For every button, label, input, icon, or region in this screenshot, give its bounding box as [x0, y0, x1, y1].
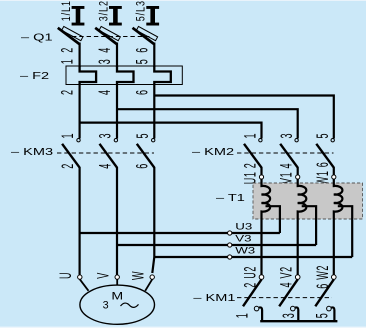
svg-text:6: 6 — [132, 90, 151, 95]
svg-text:3 4: 3 4 — [95, 46, 114, 65]
svg-text:V3: V3 — [235, 235, 251, 244]
svg-text:V: V — [94, 273, 113, 279]
svg-text:– F2: – F2 — [20, 70, 49, 82]
svg-text:– Q1: – Q1 — [21, 31, 53, 43]
svg-text:5: 5 — [313, 133, 332, 138]
svg-text:3: 3 — [277, 133, 296, 138]
svg-text:3: 3 — [279, 313, 298, 318]
svg-text:2 U2: 2 U2 — [241, 266, 260, 288]
svg-text:– KM2: – KM2 — [192, 146, 234, 158]
svg-text:4: 4 — [95, 164, 114, 169]
svg-text:V1 4: V1 4 — [277, 163, 296, 184]
svg-text:M: M — [111, 289, 123, 302]
svg-text:U3: U3 — [235, 223, 252, 232]
svg-text:6: 6 — [133, 164, 152, 169]
svg-text:W: W — [129, 271, 148, 280]
svg-text:W1 6: W1 6 — [313, 162, 332, 186]
svg-text:W3: W3 — [235, 247, 255, 256]
svg-text:3: 3 — [103, 299, 109, 311]
svg-text:5 6: 5 6 — [132, 46, 151, 65]
svg-text:5/L3: 5/L3 — [136, 0, 148, 21]
svg-text:2: 2 — [58, 164, 77, 169]
svg-text:4: 4 — [95, 90, 114, 95]
svg-text:2: 2 — [58, 90, 77, 95]
svg-text:– KM1: – KM1 — [193, 292, 235, 304]
svg-text:1: 1 — [58, 133, 77, 138]
svg-text:3/L2: 3/L2 — [98, 0, 110, 21]
svg-text:3: 3 — [96, 133, 115, 138]
svg-text:1: 1 — [233, 313, 252, 318]
svg-text:– T1: – T1 — [216, 192, 245, 204]
svg-text:5: 5 — [313, 313, 332, 318]
svg-text:U: U — [56, 272, 75, 279]
svg-text:5: 5 — [133, 133, 152, 138]
svg-text:4 V2: 4 V2 — [277, 266, 296, 287]
svg-text:1/L1: 1/L1 — [61, 0, 73, 21]
svg-text:1 2: 1 2 — [58, 46, 77, 65]
svg-text:– KM3: – KM3 — [11, 146, 53, 158]
svg-text:U1 2: U1 2 — [241, 162, 260, 184]
svg-text:1: 1 — [241, 133, 260, 138]
